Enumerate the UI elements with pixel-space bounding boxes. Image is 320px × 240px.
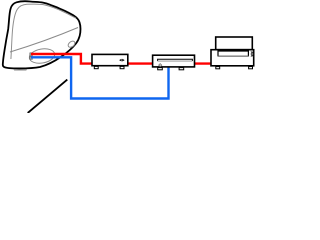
printer right foot xyxy=(249,67,253,69)
switch box xyxy=(153,55,195,67)
back panel crease xyxy=(10,28,78,53)
switch left foot xyxy=(158,68,163,70)
printer output slot xyxy=(218,51,248,56)
inner highlight line (left + top) xyxy=(11,4,76,59)
switch indicator icon xyxy=(159,64,162,67)
cable connector blobs xyxy=(30,53,33,56)
modem box xyxy=(92,54,128,65)
printer body xyxy=(211,50,254,66)
printer output slot bottom edge xyxy=(218,55,249,57)
port door oval xyxy=(67,40,76,49)
red cable xyxy=(31,54,212,64)
printer lid xyxy=(216,37,253,50)
printer status icons xyxy=(251,51,253,56)
modem left foot xyxy=(94,66,98,68)
modem right foot xyxy=(120,66,124,68)
stand line under computer xyxy=(14,68,27,71)
cable callout oval xyxy=(28,47,56,65)
switch right foot xyxy=(179,68,184,70)
switch slot top line xyxy=(158,59,193,61)
computer (rear view) outer outline xyxy=(3,1,81,68)
modem arrows icon xyxy=(119,59,125,62)
pointer line xyxy=(28,80,68,113)
blue cable xyxy=(31,57,169,98)
printer left foot xyxy=(216,67,220,69)
switch slot bottom line xyxy=(158,60,193,62)
